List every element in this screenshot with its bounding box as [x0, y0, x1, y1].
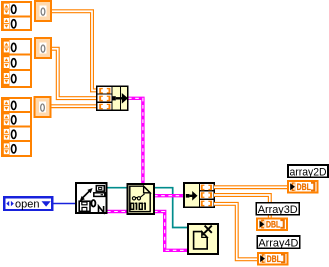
- array constant 3D (big box with 3 index rows): [2, 39, 31, 87]
- svg-text:open: open: [15, 199, 39, 211]
- floppy glyph: [79, 201, 90, 211]
- refnum wire: open file -> read binary (teal): [107, 187, 127, 189]
- wire A (2D array wire from array constant 1 to bundle input 1): [51, 11, 97, 90]
- open file node (file manager icon): [76, 183, 106, 213]
- output wire to Array4D indicator (4D array wire): [214, 204, 258, 259]
- array2D DBL indicator terminal: [288, 181, 318, 193]
- svg-text:array2D: array2D: [290, 166, 327, 178]
- Array3D label: [256, 203, 299, 216]
- array constant 3D element display (empty, grayed 0): [35, 38, 51, 58]
- cluster wire from bundle to read-binary node (magenta dashed): [128, 98, 143, 185]
- output wire to array2D indicator (2D array wire): [214, 185, 288, 189]
- array constant 2D (big box with 2 index rows): [2, 2, 31, 30]
- bent transfer arrow: [83, 191, 90, 198]
- Array3D DBL indicator terminal: [257, 218, 287, 230]
- array constant 2D element display (empty, grayed 0): [35, 1, 51, 21]
- array constant 4D element display (empty, grayed 0): [35, 97, 51, 117]
- document outline with folded corner: [194, 232, 208, 249]
- 0 and N letters: [91, 200, 95, 207]
- arrow from X to doc: [204, 230, 207, 233]
- error wire: open file -> read binary (magenta dashed): [107, 210, 127, 213]
- enum wire: open constant -> open file node (blue): [53, 203, 76, 205]
- data cluster wire: read binary -> unbundle (magenta dashed): [154, 194, 184, 197]
- wire C (4D array wire from array constant 3 to bundle input 3): [51, 104, 97, 108]
- computer glyph: [96, 186, 104, 192]
- document outline with folded corner: [130, 186, 150, 211]
- bundle node U1: [97, 86, 128, 110]
- array constant 4D (big box with 4 index rows): [2, 98, 31, 156]
- refnum wire: read binary -> close file (teal): [154, 188, 188, 228]
- output wire to Array3D indicator (3D array wire): [214, 195, 270, 218]
- unbundle node U2: [184, 183, 214, 207]
- Array4D DBL indicator terminal: [258, 253, 288, 265]
- bundle arrow: [112, 96, 116, 100]
- svg-text:Array3D: Array3D: [258, 204, 298, 216]
- close file node: [188, 224, 218, 254]
- X mark: [205, 226, 212, 233]
- error wire: read binary -> close file (magenta dashed): [154, 212, 188, 251]
- enum constant "open": [4, 197, 52, 210]
- 0101 text: [131, 203, 145, 210]
- read from binary file node (0101 doc icon): [128, 184, 154, 214]
- svg-text:Array4D: Array4D: [258, 237, 298, 249]
- wire B (3D array wire from array constant 2 to bundle input 2): [51, 49, 97, 98]
- unbundle arrow: [186, 194, 190, 198]
- array2D label: [288, 165, 328, 178]
- glasses glyph: [132, 197, 135, 200]
- Array4D label: [257, 236, 299, 249]
